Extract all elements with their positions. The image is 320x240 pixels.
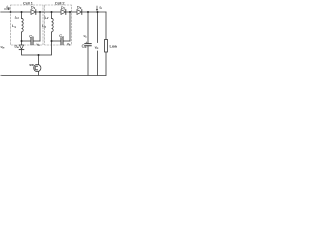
- node vo top: [97, 11, 99, 13]
- node L1 top: [21, 11, 23, 13]
- wire C1 riser to top rail: [39, 12, 41, 41]
- node C1 top: [39, 11, 41, 13]
- load branch: [105, 12, 107, 40]
- svg-text:D2: D2: [61, 5, 66, 11]
- diode D1: [31, 10, 36, 15]
- node Co top: [87, 11, 89, 13]
- svg-text:vb: vb: [67, 42, 71, 47]
- capacitor Co branch: [87, 12, 89, 44]
- node C2 tee: [51, 40, 53, 42]
- capacitor C2: [52, 40, 62, 42]
- diode D3: [77, 10, 82, 15]
- junction dots: [10, 11, 99, 56]
- svg-text:D1: D1: [31, 5, 36, 11]
- wire cell1 leg to switch node: [22, 50, 39, 55]
- resistor Load box: [105, 40, 108, 53]
- wire top rail between D1 and D2: [36, 11, 61, 13]
- svg-text:vb: vb: [37, 43, 41, 48]
- capacitor C1: [22, 40, 32, 42]
- wire L1 bottom to node: [21, 32, 23, 45]
- svg-text:+: +: [86, 40, 88, 44]
- inductor L2: [51, 12, 53, 18]
- wire top rail right segment: [82, 11, 106, 13]
- svg-text:vo: vo: [95, 44, 99, 50]
- svg-text:L1: L1: [12, 23, 16, 29]
- switch Sw (MOSFET in circle): [38, 55, 40, 65]
- svg-text:iL2: iL2: [44, 16, 48, 21]
- diode Da1 (pointing down): [19, 45, 23, 49]
- wire top rail between D2 and D3: [66, 11, 77, 13]
- output sense branch vo: [97, 12, 99, 43]
- svg-text:C1: C1: [29, 33, 34, 39]
- svg-text:C2: C2: [59, 33, 64, 39]
- wire bottom rail: [2, 74, 106, 76]
- node C2 top: [69, 11, 71, 13]
- cell 2 dashed box: [45, 5, 72, 45]
- diode D2: [61, 10, 66, 15]
- output current arrow io: [96, 6, 98, 11]
- svg-text:vin: vin: [1, 45, 5, 50]
- svg-text:Load: Load: [110, 43, 118, 48]
- svg-text:iin: iin: [7, 5, 10, 10]
- background: [0, 0, 117, 80]
- input current arrow iin: [4, 8, 10, 10]
- input + terminal: [0, 11, 1, 76]
- wire L2 bottom to switch node: [39, 32, 52, 55]
- inductor L1: [21, 12, 23, 18]
- node switch tee: [38, 54, 40, 56]
- node input: [10, 11, 12, 13]
- cell 1 dashed box: [11, 5, 44, 45]
- svg-text:Co: Co: [82, 43, 87, 49]
- node L2 top: [51, 11, 53, 13]
- svg-text:L2: L2: [42, 23, 46, 29]
- wire top rail left segment: [2, 11, 31, 13]
- svg-text:sw: sw: [29, 63, 34, 67]
- wire C2 riser to top rail: [69, 12, 71, 41]
- node C1 tee: [21, 40, 23, 42]
- svg-text:iL1: iL1: [15, 16, 19, 21]
- svg-text:Da: Da: [15, 44, 20, 49]
- svg-text:D3: D3: [77, 5, 82, 11]
